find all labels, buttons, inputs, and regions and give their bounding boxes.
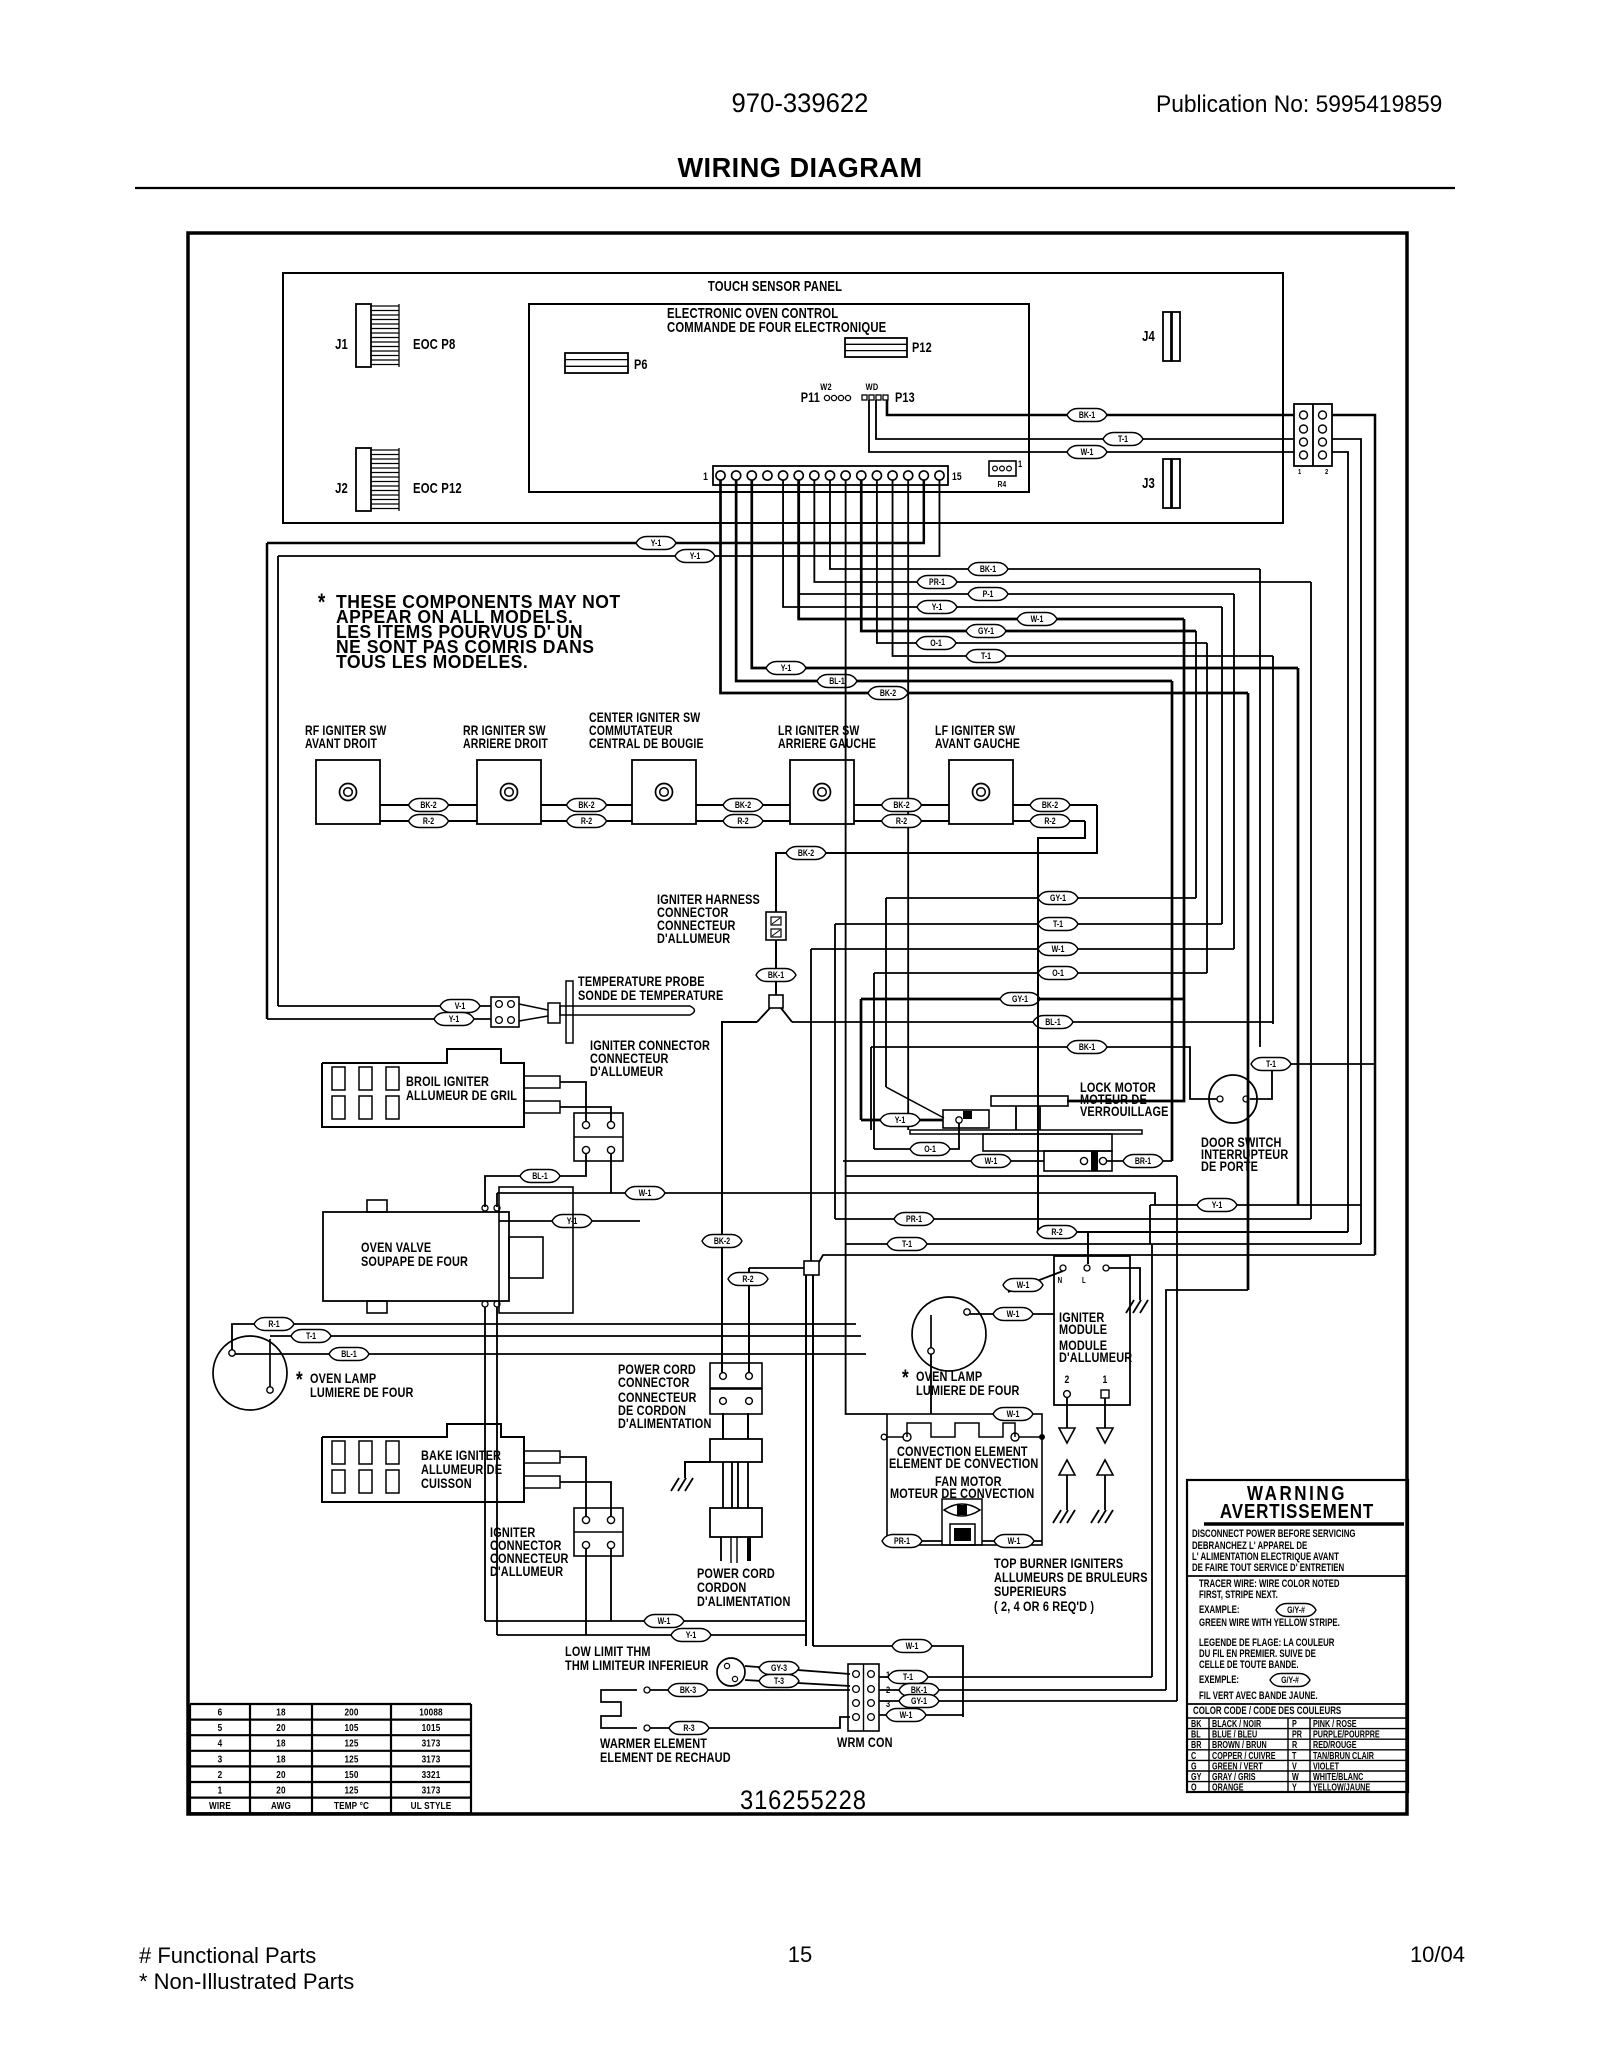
svg-text:W-1: W-1 [1017, 1280, 1030, 1290]
svg-text:BK-2: BK-2 [714, 1236, 731, 1246]
warmer element [601, 1690, 637, 1728]
temperature probe [519, 1004, 548, 1010]
wire W-1 warm con [879, 1714, 963, 1716]
svg-text:BK-2: BK-2 [880, 688, 897, 698]
svg-text:Y-1: Y-1 [690, 551, 701, 561]
svg-text:PR-1: PR-1 [929, 577, 945, 587]
wire W-1 connector right [611, 1154, 886, 1193]
igniter switch RR IGNITER SW [477, 760, 541, 824]
igniter switch CENTER IGNITER SW [632, 760, 696, 824]
svg-text:3: 3 [886, 1698, 890, 1709]
wire BK-1 warm con [879, 1689, 1166, 1691]
svg-text:YELLOW/JAUNE: YELLOW/JAUNE [1313, 1781, 1370, 1792]
svg-text:R-2: R-2 [737, 816, 749, 826]
svg-text:W-1: W-1 [1031, 614, 1044, 624]
svg-text:105: 105 [344, 1721, 358, 1733]
connector J4 [1163, 312, 1171, 361]
svg-text:* Non-Illustrated Parts: * Non-Illustrated Parts [139, 1969, 354, 1994]
wire BL-1 connector to oven valve [485, 1154, 586, 1207]
svg-text:*: * [296, 1368, 303, 1393]
module pin 2 ground arrows [1066, 1397, 1068, 1428]
lock switch [1044, 1151, 1112, 1171]
svg-text:DE FAIRE TOUT SERVICE D' E: DE FAIRE TOUT SERVICE D' ENTRETIEN [1192, 1562, 1344, 1575]
svg-text:1: 1 [703, 471, 708, 483]
svg-text:W-1: W-1 [639, 1188, 652, 1198]
svg-text:D'ALLUMEUR: D'ALLUMEUR [657, 931, 730, 947]
svg-text:DISCONNECT POWER BEFORE SERVIC: DISCONNECT POWER BEFORE SERVICING [1192, 1528, 1355, 1541]
svg-text:Y-1: Y-1 [686, 1630, 697, 1640]
svg-text:BK-2: BK-2 [893, 800, 910, 810]
svg-text:VERROUILLAGE: VERROUILLAGE [1080, 1104, 1169, 1120]
oven valve pins [482, 1205, 488, 1211]
svg-text:R-2: R-2 [742, 1274, 754, 1284]
wire Y-1 pin15 row [278, 480, 939, 556]
svg-text:COMMANDE DE FOUR ELECTRONIQUE: COMMANDE DE FOUR ELECTRONIQUE [667, 319, 886, 336]
svg-text:ELEMENT DE CONVECTION: ELEMENT DE CONVECTION [889, 1456, 1038, 1472]
svg-text:J1: J1 [335, 336, 348, 353]
wire T-3 [745, 1680, 850, 1686]
wire W-1 P13 to connector [869, 400, 1294, 452]
module pin 1 ground arrows [1104, 1398, 1106, 1428]
wire PR-1 fan [887, 1540, 942, 1542]
svg-text:GY-3: GY-3 [771, 1663, 787, 1673]
svg-text:ARRIERE DROIT: ARRIERE DROIT [463, 736, 548, 752]
wire BR-1 lock switch to right [1107, 1160, 1172, 1162]
wire GY-1 row [886, 897, 1196, 899]
svg-text:O-1: O-1 [1052, 968, 1064, 978]
svg-text:W-1: W-1 [1007, 1309, 1020, 1319]
broil igniter [322, 1049, 524, 1127]
wire lamp right down [930, 1354, 932, 1414]
svg-text:150: 150 [344, 1768, 358, 1780]
svg-text:CONNECTOR: CONNECTOR [618, 1375, 690, 1391]
svg-text:1: 1 [1103, 1374, 1108, 1386]
wire Y-1 to lock connector [861, 1119, 943, 1122]
svg-text:GY-1: GY-1 [1012, 994, 1028, 1004]
warm connector WRM CON [848, 1664, 879, 1731]
igniter connector bake [574, 1508, 623, 1556]
svg-text:1015: 1015 [422, 1721, 441, 1733]
svg-text:BK-1: BK-1 [1079, 410, 1096, 420]
svg-text:125: 125 [344, 1737, 358, 1749]
svg-text:D'ALLUMEUR: D'ALLUMEUR [490, 1564, 563, 1580]
igniter switch LF IGNITER SW [949, 760, 1013, 824]
svg-text:COLOR CODE / CODE DES COULEU: COLOR CODE / CODE DES COULEURS [1193, 1705, 1342, 1718]
wire pin9 long vertical to convection element [846, 480, 887, 1414]
convection element box [887, 1414, 1042, 1545]
svg-text:*: * [902, 1366, 909, 1391]
svg-text:T-1: T-1 [1266, 1059, 1276, 1069]
connector R4 [989, 461, 1016, 476]
wire connector right to door switch T-1 [1332, 415, 1375, 1255]
svg-text:2: 2 [1325, 468, 1328, 476]
wire W-1 lamp right [970, 1313, 1054, 1315]
svg-text:Y-1: Y-1 [781, 663, 792, 673]
wire W-1 row [811, 948, 1234, 950]
wire connector right down 2 [1332, 452, 1348, 1232]
wire BL-1 row [792, 1021, 1273, 1023]
svg-text:( 2, 4 OR 6 REQ'D ): ( 2, 4 OR 6 REQ'D ) [994, 1599, 1094, 1615]
svg-text:ELEMENT DE RECHAUD: ELEMENT DE RECHAUD [600, 1750, 731, 1766]
svg-text:3: 3 [218, 1752, 223, 1764]
power cord ground [685, 1462, 710, 1478]
svg-text:P13: P13 [895, 390, 915, 406]
outer border [188, 233, 1407, 1814]
svg-text:D'ALIMENTATION: D'ALIMENTATION [697, 1594, 790, 1610]
svg-text:BR-1: BR-1 [1135, 1156, 1152, 1166]
svg-text:125: 125 [344, 1783, 358, 1795]
top burner spark wires [805, 1275, 807, 1646]
wire GY-1 warm con [879, 1700, 1177, 1702]
igniter connector broil [574, 1113, 623, 1161]
svg-text:BK-3: BK-3 [680, 1685, 697, 1695]
svg-text:2: 2 [1065, 1374, 1070, 1386]
svg-text:10088: 10088 [419, 1705, 443, 1717]
svg-text:L: L [1082, 1276, 1086, 1285]
svg-text:BL-1: BL-1 [532, 1171, 548, 1181]
wire PR-1 row [835, 1218, 1311, 1220]
wires BK-2 / R-2 between igniter switches [380, 804, 477, 806]
touch sensor panel box [283, 273, 1283, 523]
svg-text:EOC P12: EOC P12 [413, 480, 462, 497]
svg-text:P6: P6 [634, 357, 648, 373]
svg-text:THM LIMITEUR INFERIEUR: THM LIMITEUR INFERIEUR [565, 1658, 708, 1674]
wire R-3 warmer [650, 1717, 850, 1728]
svg-text:D'ALLUMEUR: D'ALLUMEUR [1059, 1350, 1132, 1366]
svg-text:O: O [1191, 1781, 1197, 1792]
svg-text:BK-2: BK-2 [578, 800, 595, 810]
svg-text:P11: P11 [801, 390, 820, 406]
svg-text:Publication No: 5995419859: Publication No: 5995419859 [1156, 90, 1442, 117]
wire BK-1 below harness [775, 940, 777, 995]
wire module pin3 to ground [1109, 1268, 1140, 1300]
svg-text:J3: J3 [1142, 475, 1155, 492]
wire T-1 warm con [879, 1676, 1152, 1678]
svg-text:G/Y-#: G/Y-# [1287, 1605, 1305, 1615]
svg-text:10/04: 10/04 [1410, 1942, 1465, 1967]
power cord connector [710, 1363, 762, 1388]
wire lock motor feed [1067, 999, 1184, 1101]
svg-text:20: 20 [276, 1783, 285, 1795]
wire gauge table [190, 1703, 471, 1705]
staircase wires from terminal strip [830, 480, 1260, 569]
svg-text:LUMIERE DE FOUR: LUMIERE DE FOUR [310, 1385, 414, 1401]
svg-text:N: N [1058, 1276, 1063, 1285]
wire module right feed [1166, 1290, 1248, 1690]
svg-text:*: * [318, 589, 326, 616]
wire to door region 1193 ext [886, 1193, 1155, 1205]
igniter module [1054, 1256, 1130, 1405]
svg-text:Y: Y [1292, 1781, 1297, 1792]
svg-text:2: 2 [218, 1768, 223, 1780]
wire R-2 to power cord [748, 1268, 750, 1372]
terminal strip 1-15 [713, 466, 948, 485]
wire BK-2 to power cord [722, 1022, 757, 1372]
svg-text:R-3: R-3 [683, 1723, 695, 1733]
svg-text:R-2: R-2 [581, 816, 593, 826]
wire Y-1 power cord bottom [497, 1634, 806, 1636]
wire R-1 lamp [232, 1324, 856, 1350]
svg-text:P12: P12 [912, 340, 932, 356]
wire Y-1 temp probe [267, 1018, 491, 1020]
svg-text:GY-1: GY-1 [911, 1696, 927, 1706]
svg-text:W-1: W-1 [906, 1641, 919, 1651]
broil igniter stubs [524, 1076, 560, 1088]
svg-text:15: 15 [788, 1942, 812, 1967]
svg-text:R-2: R-2 [896, 816, 908, 826]
svg-text:15: 15 [952, 471, 962, 483]
svg-text:BK-2: BK-2 [420, 800, 437, 810]
igniter switch RF IGNITER SW [316, 760, 380, 824]
svg-text:3173: 3173 [422, 1752, 441, 1764]
svg-text:CENTRAL DE BOUGIE: CENTRAL DE BOUGIE [589, 736, 704, 752]
svg-text:W-1: W-1 [985, 1156, 998, 1166]
svg-text:TOUCH SENSOR PANEL: TOUCH SENSOR PANEL [708, 278, 842, 295]
temperature probe connector [491, 997, 519, 1027]
wire connector right down [1332, 439, 1361, 1244]
svg-text:T-1: T-1 [1053, 919, 1063, 929]
svg-text:UL STYLE: UL STYLE [411, 1799, 452, 1811]
wire oven valve down W-1 [484, 1307, 486, 1621]
bake igniter [322, 1424, 524, 1502]
svg-text:5: 5 [218, 1721, 223, 1733]
svg-text:GY-1: GY-1 [978, 626, 994, 636]
svg-text:O-1: O-1 [930, 638, 942, 648]
svg-text:SONDE DE TEMPERATURE: SONDE DE TEMPERATURE [578, 988, 723, 1004]
low limit thermostat [717, 1658, 745, 1686]
svg-text:J4: J4 [1142, 328, 1155, 345]
vertical GY wire right [1176, 1176, 1178, 1701]
svg-text:ARRIERE GAUCHE: ARRIERE GAUCHE [778, 736, 876, 752]
lock motor [991, 1096, 1068, 1106]
svg-text:BK-1: BK-1 [980, 564, 997, 574]
connector J3 [1163, 459, 1171, 508]
wire BL-1 lamp [235, 1353, 866, 1355]
svg-text:CELLE DE TOUTE BANDE.: CELLE DE TOUTE BANDE. [1199, 1659, 1299, 1672]
svg-text:Y-1: Y-1 [1212, 1200, 1223, 1210]
junction square igniter spark [769, 995, 783, 1008]
svg-text:PR-1: PR-1 [894, 1536, 910, 1546]
svg-text:AVANT DROIT: AVANT DROIT [305, 736, 377, 752]
wire Y-1 door row [1150, 1204, 1361, 1206]
wire pin13 long vertical to lock motor [907, 480, 909, 1130]
svg-text:20: 20 [276, 1721, 285, 1733]
bake igniter stubs [524, 1451, 560, 1463]
power cord tail [720, 1537, 722, 1561]
warning box [1187, 1480, 1408, 1792]
wire BK-3 warmer [650, 1689, 850, 1691]
svg-text:316255228: 316255228 [740, 1786, 867, 1816]
wire oven valve down Y-1 [496, 1307, 498, 1635]
svg-text:W-1: W-1 [1008, 1536, 1021, 1546]
svg-text:ALLUMEUR DE GRIL: ALLUMEUR DE GRIL [406, 1088, 517, 1104]
connector P6 [565, 353, 628, 373]
svg-text:FIL VERT AVEC BANDE JA: FIL VERT AVEC BANDE JAUNE. [1199, 1690, 1318, 1703]
wire T-1 row 1244 [846, 1243, 1361, 1245]
svg-text:CUISSON: CUISSON [421, 1476, 472, 1492]
svg-text:T-1: T-1 [902, 1239, 912, 1249]
svg-text:W-1: W-1 [1052, 944, 1065, 954]
electronic oven control box [529, 304, 1029, 492]
wire bake to connector [560, 1457, 586, 1516]
svg-text:3173: 3173 [422, 1737, 441, 1749]
svg-text:R-2: R-2 [423, 816, 435, 826]
svg-text:R-1: R-1 [268, 1319, 280, 1329]
junction square top burner [804, 1261, 819, 1275]
right side vertical wire drops [1259, 569, 1261, 1047]
connector J1 EOC P8 [356, 304, 371, 367]
svg-text:GREEN WIRE WITH YELLOW STRIPE.: GREEN WIRE WITH YELLOW STRIPE. [1199, 1617, 1340, 1630]
svg-text:W-1: W-1 [1081, 447, 1094, 457]
svg-text:BK-2: BK-2 [798, 848, 815, 858]
oven lamp left [213, 1336, 287, 1410]
8-pin connector block [1294, 404, 1332, 466]
svg-text:T-1: T-1 [306, 1331, 316, 1341]
wire pin6 vertical [797, 480, 800, 619]
svg-text:V-1: V-1 [455, 1001, 466, 1011]
svg-text:J2: J2 [335, 480, 348, 497]
svg-text:WRM CON: WRM CON [837, 1735, 893, 1751]
svg-text:O-1: O-1 [924, 1144, 936, 1154]
svg-text:125: 125 [344, 1752, 358, 1764]
wire Y-1 oven valve [499, 1220, 640, 1222]
svg-text:T-1: T-1 [1118, 434, 1128, 444]
wire GY-1 thick row [861, 998, 1184, 1001]
svg-text:4: 4 [218, 1737, 223, 1749]
svg-text:Y-1: Y-1 [651, 538, 662, 548]
svg-text:BK-2: BK-2 [735, 800, 752, 810]
wire T-1 P13 to connector [876, 400, 1294, 439]
wire broil to connector [560, 1082, 586, 1121]
igniter harness connector [766, 912, 786, 940]
svg-text:P-1: P-1 [983, 589, 994, 599]
svg-text:W-1: W-1 [900, 1710, 913, 1720]
svg-text:D'ALLUMEUR: D'ALLUMEUR [590, 1064, 663, 1080]
svg-text:WIRING DIAGRAM: WIRING DIAGRAM [677, 152, 922, 183]
svg-text:EOC P8: EOC P8 [413, 336, 455, 353]
svg-text:BK-1: BK-1 [768, 970, 785, 980]
wire Y-1 pin14 row [267, 480, 924, 543]
wire W-1 into module N [1008, 1271, 1063, 1292]
svg-text:FIRST, STRIPE NEXT.: FIRST, STRIPE NEXT. [1199, 1589, 1278, 1602]
svg-text:G/Y-#: G/Y-# [1281, 1675, 1299, 1685]
svg-text:AWG: AWG [271, 1799, 291, 1811]
svg-text:W2: W2 [820, 381, 831, 392]
svg-text:200: 200 [344, 1705, 358, 1717]
svg-text:1: 1 [1018, 458, 1022, 469]
svg-text:Y-1: Y-1 [449, 1014, 460, 1024]
svg-text:BL-1: BL-1 [829, 676, 845, 686]
wire T-1 row [835, 923, 1222, 925]
svg-text:3173: 3173 [422, 1783, 441, 1795]
svg-text:Y-1: Y-1 [895, 1115, 906, 1125]
svg-text:1: 1 [218, 1783, 223, 1795]
wire R-2 LF to igniter module [1038, 821, 1348, 1232]
oven valve [323, 1212, 509, 1301]
svg-text:Y-1: Y-1 [932, 602, 943, 612]
connector P12 [845, 338, 907, 357]
svg-text:3321: 3321 [422, 1768, 441, 1780]
svg-text:SUPERIEURS: SUPERIEURS [994, 1584, 1067, 1600]
wire V-1 temp probe [278, 1005, 491, 1007]
svg-text:BL-1: BL-1 [341, 1349, 357, 1359]
wire W-1 lock switch [843, 1160, 1044, 1162]
svg-text:1: 1 [1298, 468, 1301, 476]
svg-text:EXAMPLE:: EXAMPLE: [1199, 1604, 1239, 1617]
convection element [907, 1423, 1015, 1437]
svg-text:T-3: T-3 [774, 1676, 784, 1686]
svg-text:R4: R4 [998, 479, 1007, 489]
svg-text:18: 18 [276, 1752, 285, 1764]
wire W-1 on box top [993, 1408, 1033, 1421]
svg-text:AVERTISSEMENT: AVERTISSEMENT [1220, 1500, 1374, 1523]
svg-text:AVANT GAUCHE: AVANT GAUCHE [935, 736, 1020, 752]
svg-text:6: 6 [218, 1705, 223, 1717]
wire to door region 1176 [846, 1175, 1177, 1177]
svg-text:T-1: T-1 [981, 651, 991, 661]
wire W-1 power cord bottom [485, 1620, 806, 1622]
svg-text:GY-1: GY-1 [1050, 893, 1066, 903]
wire BK-1 P13 to connector [887, 400, 1294, 415]
svg-text:W-1: W-1 [658, 1616, 671, 1626]
svg-text:# Functional Parts: # Functional Parts [139, 1943, 316, 1968]
wire BK-1 row to door [871, 1047, 1217, 1099]
svg-text:TEMP °C: TEMP °C [334, 1799, 369, 1811]
svg-text:BK-2: BK-2 [1042, 800, 1059, 810]
igniter switch LR IGNITER SW [790, 760, 854, 824]
wire BK-2 LF to harness connector [776, 805, 1097, 912]
svg-text:R-2: R-2 [1044, 816, 1056, 826]
wire T-1 lamp [270, 1335, 861, 1337]
svg-text:TOUS LES MODELES.: TOUS LES MODELES. [336, 652, 528, 673]
svg-text:EXEMPLE:: EXEMPLE: [1199, 1674, 1239, 1687]
svg-text:WIRE: WIRE [209, 1799, 231, 1811]
svg-text:18: 18 [276, 1705, 285, 1717]
svg-text:970-339622: 970-339622 [732, 87, 869, 118]
svg-text:18: 18 [276, 1737, 285, 1749]
door switch [1209, 1075, 1257, 1123]
oven valve regulator [509, 1237, 543, 1278]
svg-text:SOUPAPE DE FOUR: SOUPAPE DE FOUR [361, 1254, 468, 1270]
connector J2 EOC P12 [356, 448, 371, 511]
svg-text:PR-1: PR-1 [906, 1214, 922, 1224]
lock connector [943, 1110, 989, 1128]
svg-text:T-1: T-1 [903, 1672, 913, 1682]
wire O-1 row [874, 972, 1207, 974]
wires bake connector down [585, 1549, 587, 1635]
svg-text:MODULE: MODULE [1059, 1322, 1107, 1338]
svg-text:Y-1: Y-1 [567, 1216, 578, 1226]
oven lamp right [912, 1297, 986, 1371]
wire W-1 to warm connector riser [813, 1646, 963, 1717]
svg-text:ORANGE: ORANGE [1212, 1781, 1244, 1792]
svg-text:WD: WD [866, 381, 879, 392]
svg-text:DE PORTE: DE PORTE [1201, 1159, 1258, 1175]
svg-text:BL-1: BL-1 [1045, 1017, 1061, 1027]
svg-text:BK-1: BK-1 [1079, 1042, 1096, 1052]
fan motor [942, 1499, 982, 1545]
color code table [1187, 1717, 1408, 1719]
svg-text:W-1: W-1 [1007, 1409, 1020, 1419]
wire GY-3 [745, 1666, 850, 1674]
wire O-1 lock [874, 1123, 959, 1149]
wire W-1 fan [982, 1540, 1042, 1542]
power cord body [722, 1413, 724, 1439]
svg-text:D'ALIMENTATION: D'ALIMENTATION [618, 1416, 711, 1432]
svg-text:R-2: R-2 [1051, 1227, 1063, 1237]
svg-text:20: 20 [276, 1768, 285, 1780]
